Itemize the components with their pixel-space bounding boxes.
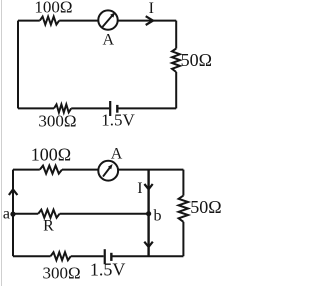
resistor 300ohm zigzag xyxy=(51,252,71,260)
svg-text:300Ω: 300Ω xyxy=(43,263,81,282)
wire battery to resistor xyxy=(71,107,109,109)
wire bottom left segment xyxy=(13,255,51,257)
resistor 300ohm zigzag xyxy=(54,104,71,112)
resistor 50ohm zigzag xyxy=(172,49,180,73)
resistor 100ohm zigzag xyxy=(40,166,62,174)
svg-text:A: A xyxy=(111,146,123,163)
ammeter U2 needle arrowhead xyxy=(108,164,113,169)
svg-text:100Ω: 100Ω xyxy=(31,145,71,165)
battery V1 short plate xyxy=(116,105,118,113)
wire right side upper xyxy=(175,21,177,49)
wire right side lower xyxy=(182,222,184,256)
ammeter U1 circle xyxy=(98,10,117,29)
current arrow up chevron on left wire xyxy=(9,189,18,195)
wire middle a to resistor R xyxy=(13,213,38,215)
wire bottom left segment xyxy=(18,107,54,109)
svg-text:300Ω: 300Ω xyxy=(38,112,76,131)
svg-text:R: R xyxy=(43,217,54,234)
wire right side lower xyxy=(175,72,177,108)
svg-text:A: A xyxy=(103,31,115,48)
svg-text:1.5V: 1.5V xyxy=(101,110,135,129)
wire top-left segment xyxy=(18,20,40,22)
wire resistor R to node b xyxy=(60,213,149,215)
wire bottom right segment xyxy=(113,255,184,257)
ammeter U2 needle xyxy=(103,167,110,177)
wire ammeter to corner xyxy=(118,20,177,22)
current arrow I chevron down on branch xyxy=(144,184,152,189)
wire top-left segment xyxy=(13,169,40,171)
page edge line xyxy=(1,0,3,286)
ammeter U2 circle xyxy=(98,161,118,181)
svg-text:1.5V: 1.5V xyxy=(90,260,126,280)
svg-text:I: I xyxy=(149,0,154,17)
ammeter U1 needle arrowhead xyxy=(110,12,115,17)
resistor R zigzag xyxy=(38,210,59,218)
wire ammeter to corner xyxy=(118,169,183,171)
battery V2 short plate xyxy=(110,253,112,261)
wire battery to resistor xyxy=(71,255,104,257)
wire between resistor and ammeter xyxy=(62,169,98,171)
wire left side xyxy=(17,21,19,109)
current arrow chevron down lower branch xyxy=(144,242,153,247)
resistor 50ohm zigzag xyxy=(179,196,189,222)
current arrow I chevron xyxy=(146,16,153,25)
svg-text:50Ω: 50Ω xyxy=(181,50,212,70)
ammeter U1 needle xyxy=(103,15,113,27)
resistor R 100ohm zigzag xyxy=(40,17,59,25)
wire right side upper xyxy=(182,170,184,196)
wire branch b vertical xyxy=(147,170,149,257)
wire between resistor and ammeter xyxy=(59,20,98,22)
svg-text:I: I xyxy=(137,180,142,197)
svg-text:b: b xyxy=(154,207,162,224)
battery V2 long plate xyxy=(104,249,106,264)
svg-text:100Ω: 100Ω xyxy=(34,0,72,16)
wire bottom right segment xyxy=(118,107,176,109)
node b junction dot xyxy=(146,211,151,216)
node a junction dot xyxy=(10,212,15,217)
battery V1 long plate xyxy=(109,101,111,116)
wire left side xyxy=(12,170,14,257)
svg-text:a: a xyxy=(3,206,10,223)
svg-text:50Ω: 50Ω xyxy=(190,197,221,217)
